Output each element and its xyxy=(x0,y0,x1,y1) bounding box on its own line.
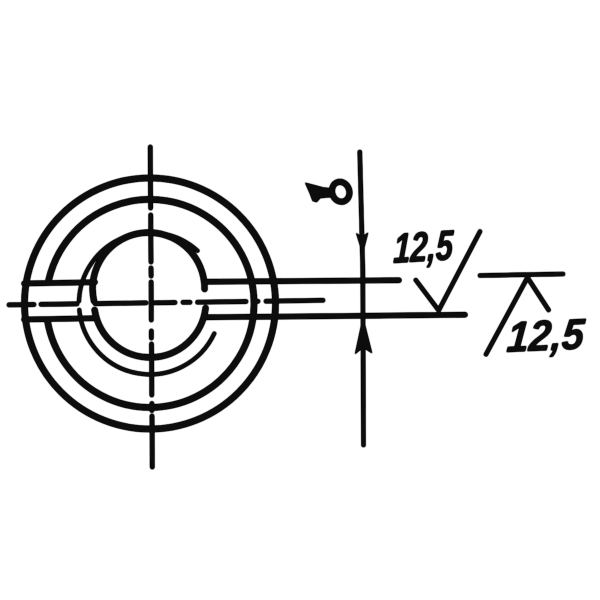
horizontal centerline xyxy=(9,300,323,305)
bore circle upper piece xyxy=(93,233,205,301)
bore circle lower piece xyxy=(95,308,206,357)
slot bottom line right (extension) xyxy=(205,315,465,318)
arrowhead up (lower, at slot bottom) xyxy=(356,321,371,353)
thread arc (thin, 3/4) xyxy=(79,232,198,301)
slot top line left xyxy=(24,282,95,283)
arrowhead down (upper) xyxy=(358,235,367,252)
roughness mark 2: corner symbol xyxy=(480,274,563,276)
vertical centerline xyxy=(150,147,152,467)
roughness mark 1: check on slot bottom surface xyxy=(416,232,480,311)
chamfer circle xyxy=(48,199,254,407)
svg-text:12,5: 12,5 xyxy=(393,222,455,273)
svg-text:12,5: 12,5 xyxy=(505,309,587,361)
outer circle xyxy=(25,178,276,429)
slot top line right (extension) xyxy=(205,280,399,282)
dimension line b (vertical) xyxy=(360,152,364,445)
letter b (rotated, handwritten) xyxy=(306,180,352,205)
slot bottom line left xyxy=(24,318,95,319)
thread arc lower piece xyxy=(79,310,214,374)
